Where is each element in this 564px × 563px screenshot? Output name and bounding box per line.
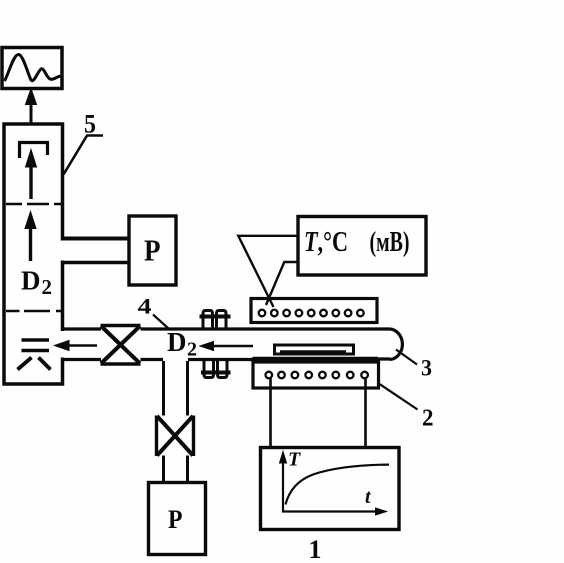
thermometer box T,C (mV) [298,217,426,276]
dashed divider lower [6,310,61,313]
svg-text:P: P [168,505,183,534]
svg-text:5: 5 [84,110,96,139]
upper heater turns [259,310,364,317]
recorder box with chromatogram [2,48,62,89]
svg-text:T,°C: T,°C [304,226,348,258]
tube bottom line [64,357,390,361]
upper pressure gauge P [129,216,176,285]
tube rounded end [390,329,402,360]
svg-text:2: 2 [422,406,434,432]
lower heater turns [266,372,368,379]
flow arrow left on tube [212,345,253,347]
t axis [282,510,377,512]
pipe pair to upper pressure gauge [63,237,130,241]
opening in right edge toward P gauge [59,241,66,358]
svg-text:T: T [288,449,301,471]
svg-text:1: 1 [309,535,322,563]
svg-text:3: 3 [421,356,432,381]
katharometer symbol [22,340,50,351]
svg-text:4: 4 [138,294,152,319]
lower valve [157,416,194,457]
furnace upper block [251,299,377,323]
chromatogram curve [5,54,62,81]
column box 5 [4,124,63,384]
left arrow into katharometer [67,344,97,347]
svg-text:P: P [144,233,161,268]
joint clamp above tube [200,315,231,319]
furnace lower block [253,362,379,388]
tube top line [64,327,390,330]
wires from heater to recorder 1 [271,377,366,448]
sampler bar symbol [18,142,49,158]
lower pressure gauge P [149,483,206,555]
valve on tube [101,326,141,365]
T axis [282,461,284,513]
branch pipe down from tube [164,361,188,416]
sample boat in tube [275,345,354,354]
joint clamp below tube [201,371,231,375]
arrow up in top section [29,165,32,199]
arrow up in middle section [29,226,32,261]
svg-text:D2: D2 [167,327,197,361]
thermocouple wires [238,236,298,307]
svg-text:(мВ): (мВ) [370,227,410,258]
arrow from column to recorder [30,101,33,143]
heating curve [286,465,390,505]
dashed divider upper [6,203,61,206]
recorder 1 box [261,448,400,530]
